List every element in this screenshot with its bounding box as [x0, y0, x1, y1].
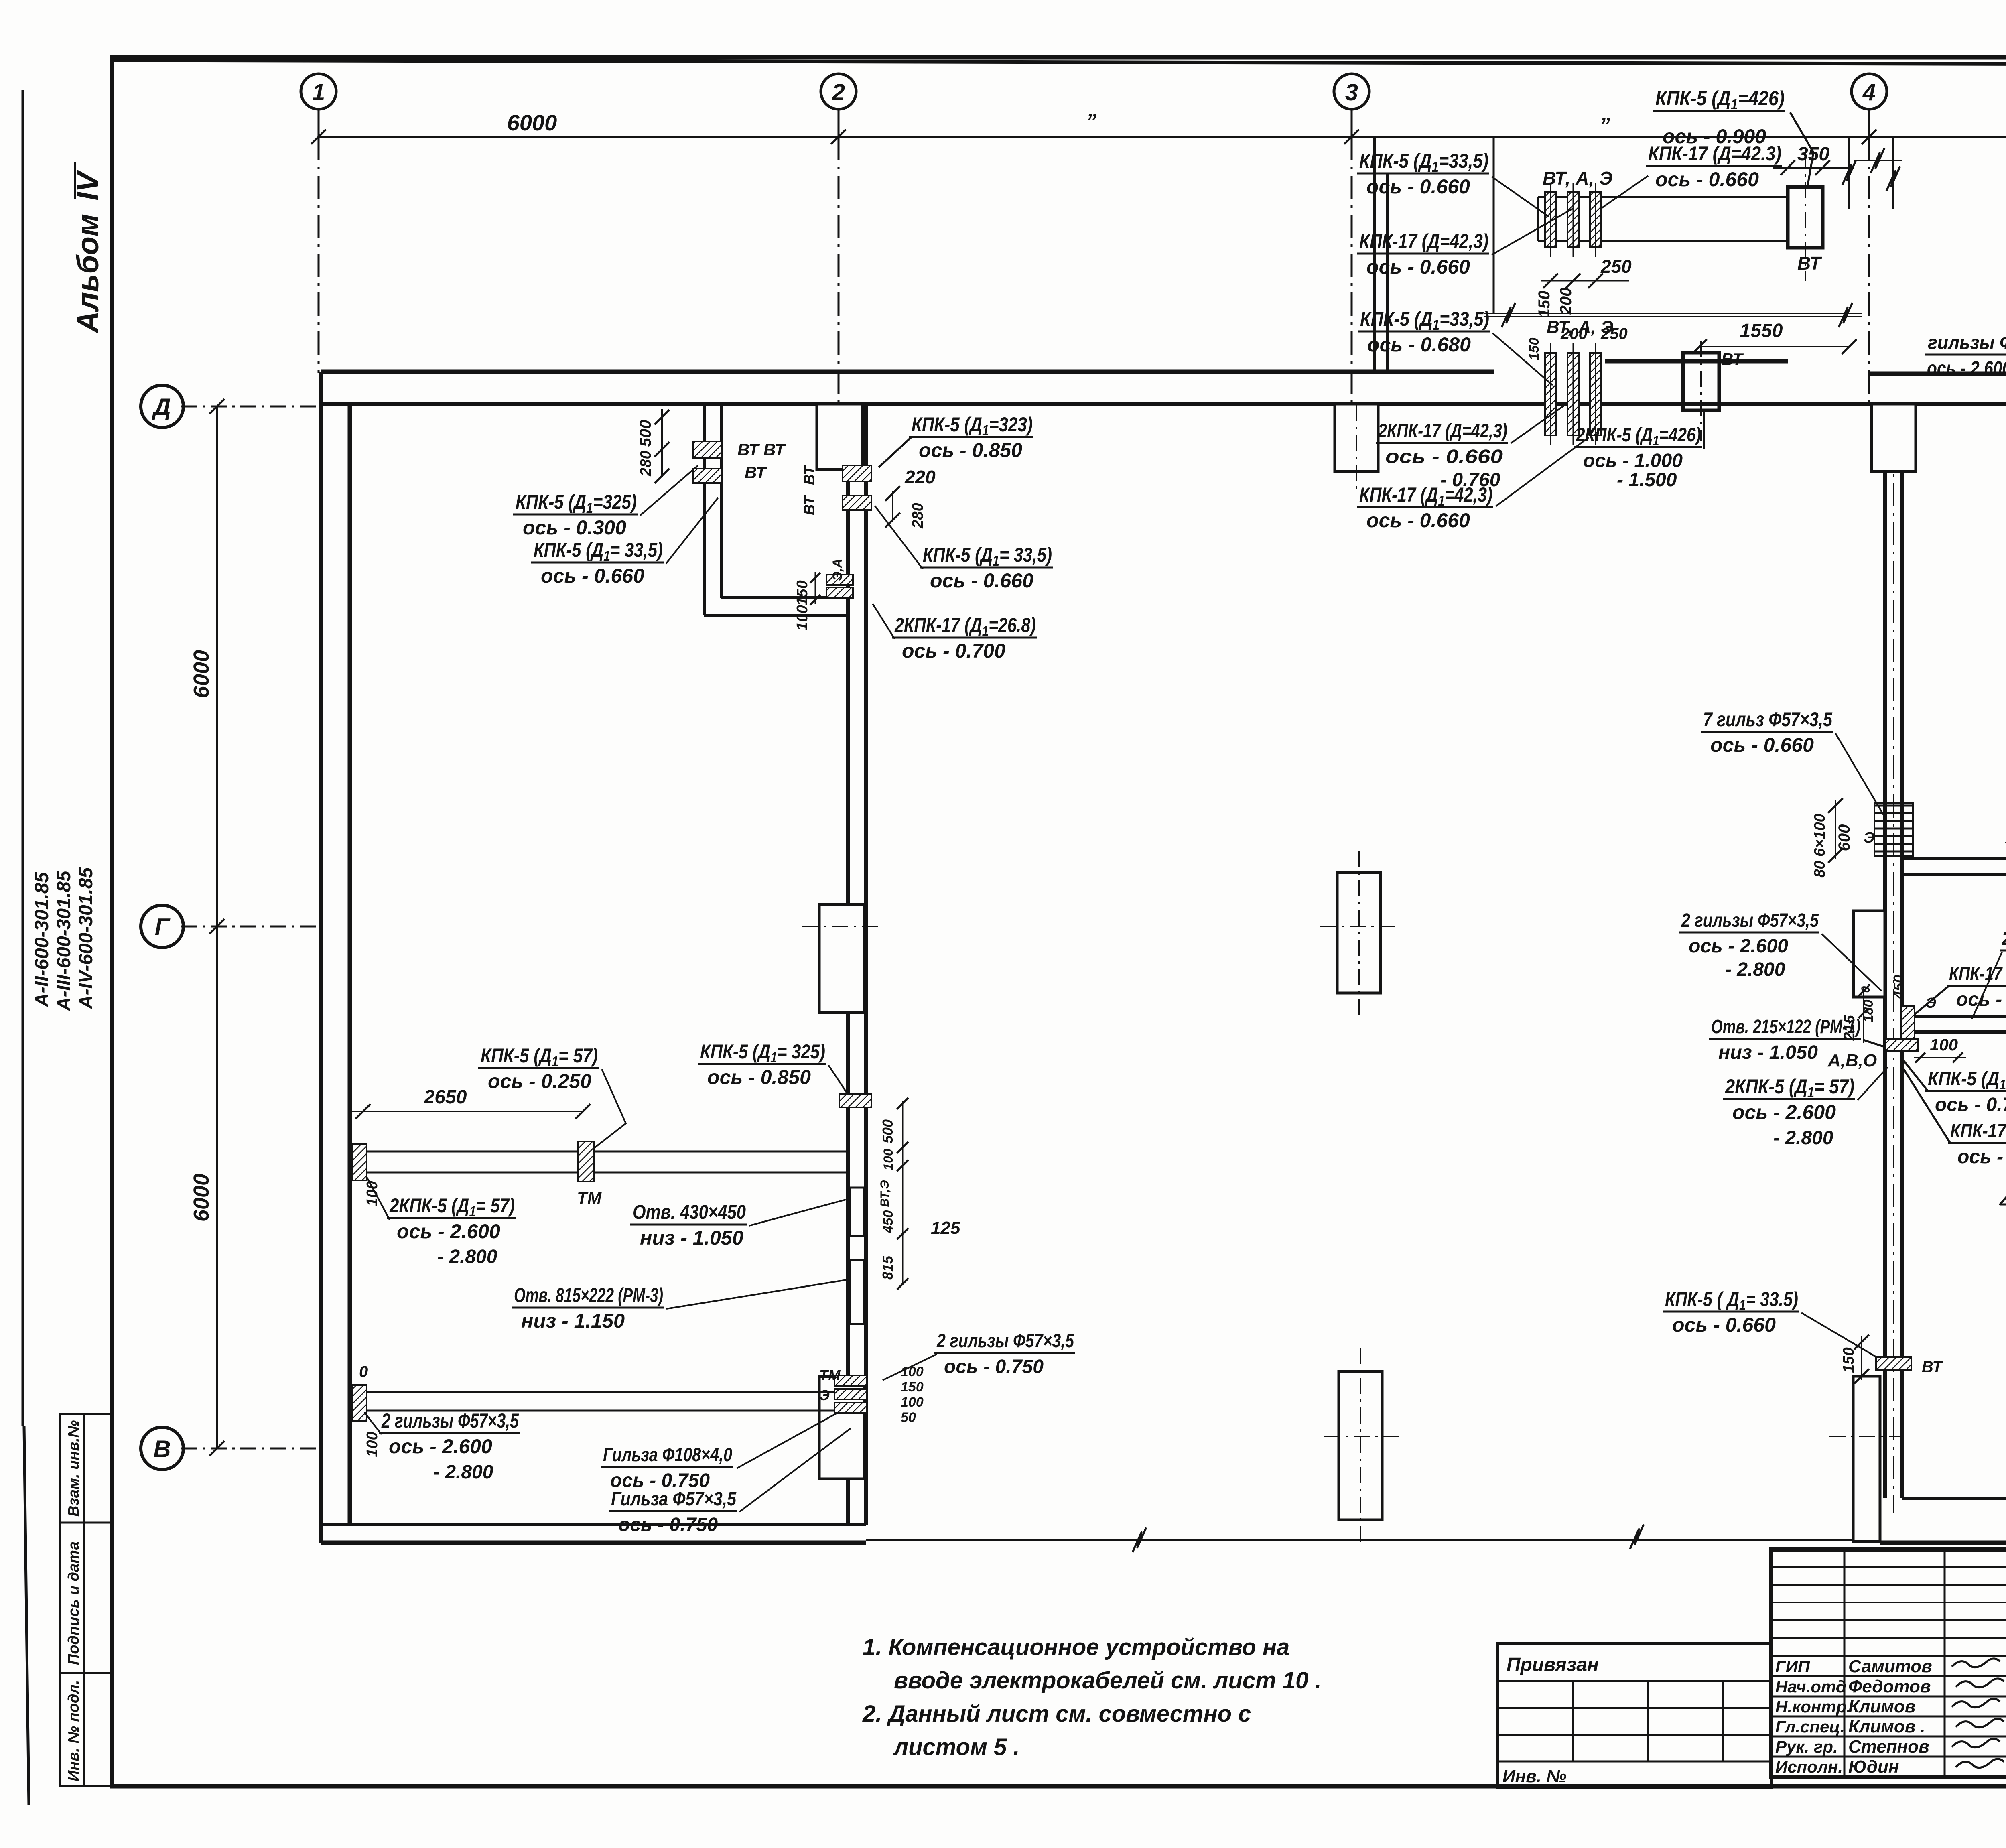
column axis2 row Г	[819, 904, 865, 1013]
top wall (axis Д) outer edge	[321, 370, 1494, 374]
column axis3 row В	[1339, 1371, 1382, 1520]
svg-text:2: 2	[832, 79, 845, 106]
svg-text:2650: 2650	[424, 1086, 467, 1108]
svg-text:815: 815	[879, 1255, 896, 1280]
svg-text:КПК-5 (Д1​= 57): КПК-5 (Д1​= 57)	[481, 1044, 598, 1070]
privyazan table box	[1498, 1643, 1771, 1788]
svg-text:Привязан: Привязан	[1507, 1654, 1599, 1675]
column below Д wall axis 3	[1335, 404, 1378, 471]
svg-text:КПК-5 (Д1​=76): КПК-5 (Д1​=76)	[1928, 1068, 2006, 1093]
svg-text:500: 500	[879, 1119, 896, 1143]
axis4 top short walls	[1848, 137, 1850, 209]
column below Д wall axis 2	[817, 404, 863, 469]
title block outer box	[1771, 1549, 2006, 1777]
sleeves on axis2 wall top	[843, 465, 871, 481]
svg-text:Гл.спец.: Гл.спец.	[1775, 1717, 1845, 1736]
svg-text:2 гильзы Ф57×3,5: 2 гильзы Ф57×3,5	[936, 1330, 1074, 1352]
svg-text:КПК-17 (Д1​=42,3): КПК-17 (Д1​=42,3)	[1359, 483, 1492, 509]
svg-text:1. Компенсационное устройст: 1. Компенсационное устройство на	[863, 1634, 1289, 1660]
vestibule vertical thin x3723	[1493, 137, 1495, 313]
svg-text:ось - 0.250: ось - 0.250	[488, 1070, 591, 1093]
svg-text:ВТ: ВТ	[801, 465, 818, 485]
pipe across left bay y3470	[366, 1391, 848, 1393]
svg-text:1550: 1550	[1740, 320, 1783, 341]
svg-text:КПК-5 (Д1​=33,5): КПК-5 (Д1​=33,5)	[1359, 150, 1488, 175]
sleeve cluster axis4 wall joint	[1901, 1006, 1915, 1043]
pipe line above Д wall	[1484, 313, 1862, 314]
svg-text:А-II-600-301.85: А-II-600-301.85	[31, 872, 53, 1007]
scan edge line left	[22, 90, 24, 1426]
svg-text:ВТ,Э: ВТ,Э	[878, 1180, 891, 1207]
sleeve left end y3470	[352, 1385, 367, 1421]
vent duct ВТ rect top	[1788, 187, 1823, 248]
svg-text:КПК-5 (Д1​=325): КПК-5 (Д1​=325)	[516, 491, 637, 516]
svg-text:250: 250	[1600, 256, 1632, 277]
svg-text:КПК-5 (Д1​= 33,5): КПК-5 (Д1​= 33,5)	[923, 544, 1052, 569]
svg-text:А-IV-600-301.85: А-IV-600-301.85	[75, 867, 97, 1009]
svg-text:ось - 0.660: ось - 0.660	[1385, 446, 1503, 467]
svg-text:вводе электрокабелей см. л: вводе электрокабелей см. лист 10 .	[894, 1667, 1322, 1694]
svg-text:”: ”	[1600, 113, 1610, 137]
svg-text:КПК-5 ( Д1​= 33.5): КПК-5 ( Д1​= 33.5)	[1665, 1288, 1798, 1313]
interior wall y2140 (axes 4-5)	[1902, 857, 2006, 860]
column axis2 row В	[819, 1377, 865, 1479]
svg-text:ВТ ВТ: ВТ ВТ	[737, 440, 786, 459]
svg-text:Инв. № подл.: Инв. № подл.	[65, 1680, 82, 1781]
top wall (axis Д) inner edge	[321, 402, 2006, 406]
svg-text:низ - 1.150: низ - 1.150	[521, 1310, 625, 1332]
svg-text:ось - 2.600: ось - 2.600	[1689, 936, 1788, 957]
svg-text:ВТ: ВТ	[1797, 253, 1822, 274]
svg-text:600: 600	[1835, 824, 1853, 851]
svg-text:- 2.800: - 2.800	[1725, 959, 1785, 980]
svg-text:4: 4	[1862, 79, 1876, 106]
svg-text:низ - 1.050: низ - 1.050	[1718, 1042, 1818, 1063]
svg-text:125: 125	[931, 1218, 960, 1238]
svg-text:ось - 0.660: ось - 0.660	[541, 565, 644, 587]
svg-text:ось - 0.850: ось - 0.850	[707, 1066, 811, 1088]
svg-text:ось - 0.660: ось - 0.660	[1366, 509, 1470, 532]
svg-text:Э: Э	[1864, 829, 1874, 846]
svg-text:450: 450	[1890, 975, 1907, 999]
svg-text:150: 150	[1527, 338, 1542, 361]
svg-text:80 6×100: 80 6×100	[1811, 814, 1828, 878]
svg-text:Инв. №: Инв. №	[1502, 1767, 1567, 1786]
svg-text:Гильза Ф108×4,0: Гильза Ф108×4,0	[603, 1444, 732, 1466]
svg-text:2 гильзы Ф57×3,5: 2 гильзы Ф57×3,5	[381, 1409, 519, 1432]
lower sleeves group x3851	[1545, 353, 1556, 435]
svg-text:2КПК-17 (Д1​=26.8): 2КПК-17 (Д1​=26.8)	[894, 614, 1036, 639]
sleeves on axis2 wall y1460	[826, 575, 853, 585]
column axis circles 1-5	[301, 74, 336, 109]
svg-text:ось - 0.660: ось - 0.660	[930, 569, 1033, 592]
svg-text:ось - 0.660: ось - 0.660	[1710, 734, 1814, 756]
svg-text:Федотов: Федотов	[1848, 1677, 1931, 1696]
svg-text:ось - 0.660: ось - 0.660	[1672, 1314, 1776, 1336]
svg-text:100: 100	[794, 605, 811, 630]
svg-text:Рук. гр.: Рук. гр.	[1775, 1737, 1838, 1756]
svg-text:Э: Э	[819, 1387, 830, 1403]
svg-text:50: 50	[901, 1410, 916, 1425]
7 sleeve ticks on axis4 wall	[1874, 805, 1913, 807]
interior wall axis 4	[1883, 404, 1887, 1498]
row axis circles Д Г В	[141, 385, 183, 428]
svg-text:КПК-5 (Д1​=426): КПК-5 (Д1​=426)	[1655, 87, 1785, 112]
svg-text:ось - 0.680: ось - 0.680	[1367, 333, 1471, 356]
svg-text:ось - 0.200: ось - 0.200	[1956, 989, 2006, 1010]
svg-text:150: 150	[1840, 1347, 1857, 1373]
interior wall y2533 (axes 4-5)	[1914, 1015, 2006, 1018]
svg-text:Подпись и дата: Подпись и дата	[65, 1541, 82, 1665]
interior wall axis 2	[846, 404, 850, 1525]
svg-text:гильзы Ф57×3,5: гильзы Ф57×3,5	[1928, 332, 2006, 353]
svg-text:100: 100	[364, 1181, 381, 1206]
svg-text:250: 250	[1600, 325, 1628, 343]
svg-text:ВТ: ВТ	[1721, 350, 1744, 369]
bottom wall inner edge	[321, 1523, 866, 1526]
sleeves on small wall x1755	[693, 441, 721, 458]
svg-text:ось - 0.850: ось - 0.850	[919, 439, 1022, 461]
pipe across left bay y2870	[366, 1151, 848, 1153]
column pilaster axis4 row В	[1853, 1376, 1880, 1541]
svg-text:листом 5 .: листом 5 .	[893, 1734, 1020, 1760]
svg-text:3: 3	[1345, 79, 1358, 106]
svg-text:200: 200	[1560, 325, 1588, 343]
svg-text:Взам. инв.№: Взам. инв.№	[65, 1420, 82, 1517]
svg-text:Степнов: Степнов	[1848, 1737, 1929, 1757]
svg-text:КПК-17 (Д1​=26.8): КПК-17 (Д1​=26.8)	[1949, 963, 2006, 987]
svg-text:100: 100	[364, 1432, 381, 1457]
svg-text:6000: 6000	[507, 110, 557, 135]
svg-text:Г: Г	[155, 914, 171, 940]
svg-text:ось - 2.600: ось - 2.600	[397, 1220, 500, 1243]
svg-text:ось - 0.750: ось - 0.750	[618, 1514, 718, 1535]
svg-text:Самитов: Самитов	[1848, 1657, 1932, 1676]
axis 2 line	[838, 137, 840, 405]
title block left signature table	[1771, 1566, 2006, 1568]
axis 1 line	[318, 137, 320, 373]
top-left room wall vertical	[703, 404, 706, 615]
svg-text:2КПК-17 (Д=42,3): 2КПК-17 (Д=42,3)	[1378, 420, 1507, 442]
svg-text:7 гильз Ф57×3,5: 7 гильз Ф57×3,5	[1703, 708, 1833, 731]
svg-text:Нач.отд: Нач.отд	[1775, 1677, 1846, 1696]
column below Д wall axis 4	[1872, 404, 1916, 471]
svg-text:ось - 0.300: ось - 0.300	[523, 516, 626, 539]
svg-text:ось - 2.600 ; -2.800: ось - 2.600 ; -2.800	[1927, 358, 2006, 379]
svg-text:0: 0	[359, 1363, 368, 1381]
svg-text:Э: Э	[1926, 995, 1936, 1011]
axis 3 line	[1351, 137, 1353, 405]
svg-text:КПК-5 (Д1​= 33,5): КПК-5 (Д1​= 33,5)	[534, 539, 663, 564]
svg-text:ТМ: ТМ	[577, 1188, 602, 1207]
svg-text:280: 280	[638, 451, 654, 476]
svg-text:- 2.800: - 2.800	[433, 1462, 493, 1483]
svg-text:КПК-5 (Д1​=323): КПК-5 (Д1​=323)	[912, 413, 1033, 439]
svg-text:ось - 0.700: ось - 0.700	[902, 640, 1005, 662]
svg-text:Отв. 430×450: Отв. 430×450	[633, 1201, 746, 1223]
svg-text:Отв. 815×222 (РМ-3): Отв. 815×222 (РМ-3)	[514, 1284, 663, 1306]
axis 4 line	[1868, 137, 1870, 405]
svg-text:Климов .: Климов .	[1848, 1717, 1925, 1736]
svg-text:КПК-17 (Д=26,8): КПК-17 (Д=26,8)	[1950, 1121, 2006, 1142]
svg-text:150: 150	[794, 580, 811, 605]
svg-text:ось - 0.800: ось - 0.800	[1957, 1146, 2006, 1168]
svg-text:КПК-5 (Д1​=33,5): КПК-5 (Д1​=33,5)	[1360, 308, 1489, 333]
svg-text:ось - 0.700: ось - 0.700	[1935, 1094, 2006, 1115]
svg-text:ВТ: ВТ	[745, 463, 767, 482]
svg-text:- 1.500: - 1.500	[1617, 469, 1677, 491]
svg-text:ось - 0.660: ось - 0.660	[1366, 175, 1470, 198]
svg-text:ось - 2.600: ось - 2.600	[1732, 1101, 1836, 1123]
svg-text:2КПК-5 (Д1​=426): 2КПК-5 (Д1​=426)	[1576, 424, 1701, 449]
top-left room wall horizontal	[704, 614, 848, 617]
left vertical dimension line	[216, 406, 218, 1448]
svg-text:280: 280	[910, 503, 926, 528]
svg-text:ось - 0.660: ось - 0.660	[1366, 256, 1470, 278]
svg-text:Гильза Ф57×3,5: Гильза Ф57×3,5	[611, 1489, 737, 1510]
svg-text:100: 100	[881, 1149, 895, 1170]
svg-text:Исполн.: Исполн.	[1775, 1757, 1843, 1776]
svg-text:200: 200	[1557, 288, 1575, 315]
svg-text:2. Данный лист см. совмес: 2. Данный лист см. совместно с	[862, 1701, 1251, 1727]
svg-text:ось - 0.750: ось - 0.750	[944, 1356, 1044, 1377]
svg-text:ВТ, А, Э: ВТ, А, Э	[1543, 168, 1612, 189]
vestibule corridor walls	[1538, 196, 1788, 198]
svg-text:1: 1	[312, 79, 325, 106]
sleeve left end y2870	[352, 1144, 367, 1180]
dims 500 280 left	[661, 409, 663, 477]
bottom wall outer edge	[321, 1541, 866, 1545]
svg-text:А,В,О: А,В,О	[1827, 1051, 1877, 1070]
svg-text:- 2.800: - 2.800	[437, 1246, 497, 1267]
svg-text:ВТ: ВТ	[801, 495, 818, 515]
svg-text:150: 150	[901, 1379, 924, 1395]
top dimension line	[319, 136, 2006, 138]
svg-text:Альбом: Альбом	[71, 214, 105, 334]
svg-text:А-III-600-301.85: А-III-600-301.85	[53, 870, 75, 1011]
svg-text:ось - 0.660: ось - 0.660	[1655, 168, 1759, 191]
svg-text:- 2.800: - 2.800	[1773, 1127, 1833, 1149]
svg-text:ТМ: ТМ	[819, 1367, 841, 1383]
svg-text:ГИП: ГИП	[1775, 1657, 1810, 1676]
svg-text:В: В	[153, 1436, 171, 1462]
sleeve axis4 wall y3400	[1876, 1357, 1911, 1370]
svg-text:КПК-5 (Д1​= 325): КПК-5 (Д1​= 325)	[700, 1040, 825, 1066]
svg-text:Климов: Климов	[1848, 1697, 1915, 1716]
svg-text:6000: 6000	[189, 650, 213, 698]
left stamp strip boxes	[60, 1414, 112, 1786]
svg-text:2КПК-5 (Д1​= 57): 2КПК-5 (Д1​= 57)	[1725, 1075, 1854, 1101]
opening 430 on axis2 wall	[850, 1188, 864, 1236]
svg-text:6000: 6000	[189, 1174, 213, 1222]
svg-text:0.: 0.	[1859, 983, 1872, 993]
sleeve on axis2 wall y2740	[839, 1094, 871, 1107]
svg-text:ВТ: ВТ	[1922, 1358, 1943, 1376]
left wall (axis 1)	[319, 372, 323, 1543]
svg-text:100: 100	[1930, 1035, 1958, 1054]
svg-text:2КПК-17 (Д1​=88,5): 2КПК-17 (Д1​=88,5)	[2002, 928, 2006, 952]
svg-text:ось - 1.000: ось - 1.000	[1583, 450, 1683, 471]
svg-text:Отв. 215×122 (РМ-1): Отв. 215×122 (РМ-1)	[1711, 1016, 1860, 1038]
svg-text:Д: Д	[151, 394, 171, 420]
svg-text:”: ”	[1086, 109, 1097, 133]
opening РМ-3 on axis2 wall	[850, 1260, 864, 1324]
column axis3 row Г	[1337, 873, 1381, 993]
column pilaster axis4 row Г	[1854, 911, 1885, 997]
svg-text:220: 220	[904, 467, 936, 487]
svg-text:ось - 2.600: ось - 2.600	[389, 1435, 492, 1458]
svg-text:100: 100	[901, 1395, 924, 1410]
sleeve cluster axis2 wall y3470	[834, 1375, 867, 1386]
svg-text:2КПК-5 (Д1​= 57): 2КПК-5 (Д1​= 57)	[389, 1194, 515, 1220]
sleeve mid y2870	[578, 1141, 594, 1182]
svg-text:КПК-17 (Д=42,3): КПК-17 (Д=42,3)	[1359, 230, 1488, 252]
svg-text:450: 450	[881, 1210, 896, 1234]
svg-text:Юдин: Юдин	[1848, 1757, 1899, 1777]
svg-text:2 гильзы Ф57×3,5: 2 гильзы Ф57×3,5	[1681, 910, 1819, 931]
svg-text:500: 500	[637, 420, 654, 447]
svg-text:низ - 1.050: низ - 1.050	[640, 1227, 743, 1249]
svg-text:Н.контр.: Н.контр.	[1775, 1697, 1851, 1716]
svg-text:Э,А: Э,А	[830, 559, 845, 581]
vestibule wall vertical x3425	[1373, 137, 1376, 372]
vent duct ВТ rect at wall	[1683, 353, 1719, 410]
svg-text:КПК-17 (Д=42.3): КПК-17 (Д=42.3)	[1648, 142, 1781, 165]
upper sleeves group x3851	[1545, 192, 1556, 247]
